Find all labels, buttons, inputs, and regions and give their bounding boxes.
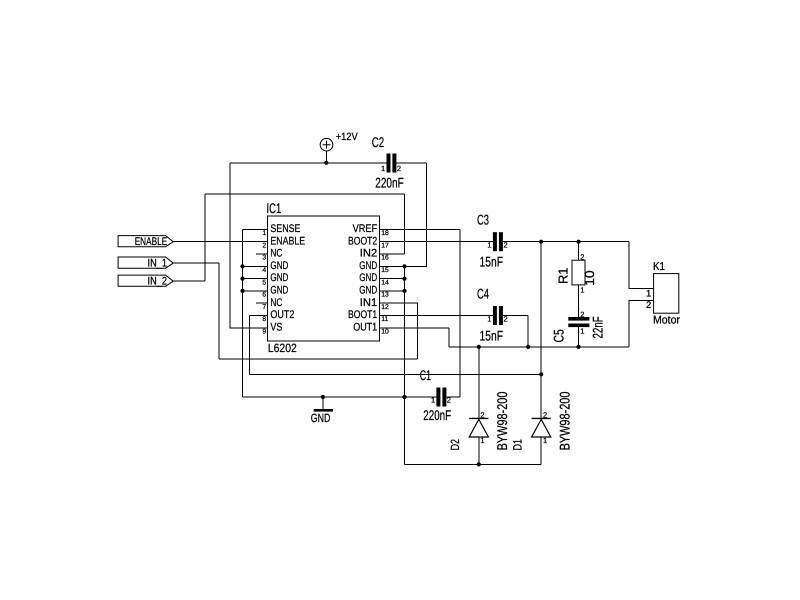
svg-text:C2: C2 bbox=[372, 134, 385, 150]
pin 12 IN1 stub bbox=[379, 302, 404, 304]
svg-text:ENABLE: ENABLE bbox=[135, 236, 168, 248]
svg-text:ENABLE: ENABLE bbox=[270, 235, 305, 247]
wire D1 cathode riser bbox=[540, 242, 542, 419]
svg-text:GND: GND bbox=[359, 272, 377, 284]
wire C2 leg down to GND pin 15 bbox=[405, 163, 427, 266]
svg-text:10: 10 bbox=[381, 329, 389, 336]
wire +12V rail to C2 bbox=[230, 162, 386, 164]
svg-text:2: 2 bbox=[262, 242, 266, 249]
pin 14 GND stub bbox=[379, 278, 404, 280]
svg-text:Motor: Motor bbox=[653, 314, 680, 326]
pin 6 GND stub bbox=[243, 290, 268, 292]
svg-text:C4: C4 bbox=[477, 285, 489, 301]
pin 8 OUT2 stub bbox=[249, 315, 267, 317]
svg-text:11: 11 bbox=[381, 316, 388, 323]
svg-text:OUT1: OUT1 bbox=[353, 321, 377, 333]
svg-text:2: 2 bbox=[504, 314, 508, 323]
wire OUT1 rail up to K1 pin 2 bbox=[629, 300, 654, 347]
wire IN_1 bottom run bbox=[219, 358, 417, 360]
wire IN_1 riser down bbox=[218, 263, 220, 359]
svg-text:K1: K1 bbox=[653, 261, 665, 273]
pin 18 VREF stub bbox=[379, 228, 404, 230]
svg-text:14: 14 bbox=[381, 279, 389, 286]
svg-text:8: 8 bbox=[262, 316, 266, 323]
connector ENABLE tag bbox=[118, 236, 173, 247]
svg-text:1: 1 bbox=[381, 164, 385, 173]
svg-text:D1: D1 bbox=[510, 439, 524, 451]
connector IN_2 tag bbox=[118, 275, 173, 286]
svg-text:10: 10 bbox=[582, 270, 597, 286]
svg-text:2: 2 bbox=[646, 300, 651, 311]
svg-text:BYW98-200: BYW98-200 bbox=[494, 391, 510, 450]
svg-text:1: 1 bbox=[487, 314, 491, 323]
capacitor C5 plates bbox=[568, 317, 589, 327]
wire OUT2 bottom run to D1 riser bbox=[249, 373, 541, 375]
junction dot R1 top bbox=[576, 240, 580, 244]
svg-text:15: 15 bbox=[381, 267, 389, 274]
svg-text:GND: GND bbox=[270, 272, 288, 284]
junction dot pin 15 GND bbox=[402, 264, 406, 268]
wire IN_2 to riser bbox=[173, 280, 205, 282]
svg-text:13: 13 bbox=[381, 292, 389, 299]
wire C1 right plate to riser bbox=[446, 396, 460, 398]
svg-text:1: 1 bbox=[646, 288, 651, 299]
pin 1 SENSE stub bbox=[243, 228, 268, 230]
pin 5 GND stub bbox=[243, 278, 268, 280]
wire IN_2 top run bbox=[205, 193, 405, 195]
junction dot pin 14 GND bbox=[402, 277, 406, 281]
wire GND right strap pins 15-13 bbox=[404, 266, 406, 397]
wire C4 drop to OUT1 rail bbox=[527, 316, 529, 347]
wire D1 anode bbox=[540, 437, 542, 464]
op-amp IC1 body bbox=[267, 216, 379, 341]
svg-text:IC1: IC1 bbox=[267, 200, 282, 216]
diode D1 cathode bar bbox=[532, 417, 551, 419]
wire ENABLE to pin 2 bbox=[173, 241, 242, 243]
wire OUT2 net C3 right run bbox=[503, 241, 629, 243]
svg-text:L6202: L6202 bbox=[268, 341, 297, 355]
junction dot pin 4 GND bbox=[240, 264, 244, 268]
wire +12V left leg down to VS bbox=[230, 163, 242, 328]
svg-text:GND: GND bbox=[359, 285, 377, 297]
wire C5 bottom to OUT1 rail bbox=[578, 327, 580, 347]
pin 4 GND stub bbox=[243, 265, 268, 267]
svg-text:1: 1 bbox=[543, 436, 547, 445]
power +12V symbol bbox=[320, 138, 333, 151]
svg-text:4: 4 bbox=[262, 267, 266, 274]
wire VREF down to C1 right bbox=[459, 229, 461, 397]
resistor R1 body bbox=[572, 260, 585, 285]
svg-text:5: 5 bbox=[262, 279, 266, 286]
svg-text:2: 2 bbox=[397, 164, 401, 173]
svg-text:GND: GND bbox=[359, 260, 377, 272]
wire IN_2 riser up bbox=[204, 194, 206, 281]
wire OUT2 net down to K1 pin 1 bbox=[629, 242, 654, 289]
pin 11 BOOT1 stub bbox=[379, 315, 404, 317]
svg-text:GND: GND bbox=[311, 411, 331, 425]
pin 9 VS stub bbox=[243, 327, 268, 329]
svg-text:2: 2 bbox=[480, 410, 484, 419]
wire GND horizontal run bbox=[243, 396, 437, 398]
wire GND branch down to diode rail bbox=[404, 397, 406, 464]
wire GND symbol stem bbox=[322, 397, 324, 409]
junction dot pin 5 GND bbox=[240, 277, 244, 281]
pin 13 GND stub bbox=[379, 290, 404, 292]
wire OUT1 step down bbox=[448, 328, 450, 347]
pin 17 BOOT2 stub bbox=[379, 241, 404, 243]
pin 16 IN2 stub bbox=[379, 253, 404, 255]
svg-text:VREF: VREF bbox=[353, 223, 378, 235]
svg-text:BOOT1: BOOT1 bbox=[348, 309, 377, 321]
svg-text:IN_1: IN_1 bbox=[148, 257, 168, 269]
capacitor C2 plates bbox=[387, 154, 397, 173]
svg-text:1: 1 bbox=[262, 230, 266, 237]
wire BOOT2 to C3 left bbox=[405, 241, 493, 243]
svg-text:R1: R1 bbox=[555, 268, 570, 285]
svg-text:GND: GND bbox=[270, 260, 288, 272]
pin 7 NC stub bbox=[256, 302, 267, 304]
svg-text:18: 18 bbox=[381, 230, 389, 237]
junction dot D1 riser at OUT2 top run bbox=[539, 240, 543, 244]
svg-text:3: 3 bbox=[262, 255, 266, 262]
connector K1 body bbox=[654, 274, 679, 314]
svg-text:IN_2: IN_2 bbox=[148, 275, 168, 287]
wire OUT2 from pin 8 down bbox=[248, 316, 250, 375]
wire +12V stem bbox=[325, 151, 327, 163]
wire D2 cathode riser bbox=[478, 347, 480, 419]
svg-text:1: 1 bbox=[431, 396, 435, 405]
capacitor C1 plates bbox=[436, 388, 446, 407]
svg-text:2: 2 bbox=[580, 252, 584, 261]
wire VREF to corner bbox=[379, 228, 460, 230]
svg-text:C5: C5 bbox=[551, 329, 567, 342]
svg-text:SENSE: SENSE bbox=[270, 223, 300, 235]
wire C4 right to drop bbox=[503, 315, 528, 317]
junction dot GND symbol bbox=[321, 395, 325, 399]
svg-text:2: 2 bbox=[580, 310, 584, 319]
svg-text:1: 1 bbox=[487, 241, 491, 250]
junction dot D2 cathode at OUT1 rail bbox=[477, 345, 481, 349]
svg-text:BYW98-200: BYW98-200 bbox=[556, 391, 572, 450]
ground symbol bbox=[314, 409, 333, 412]
svg-text:1: 1 bbox=[580, 327, 584, 336]
svg-text:D2: D2 bbox=[448, 439, 462, 451]
junction dot C4 drop at OUT1 rail bbox=[526, 345, 530, 349]
svg-text:C1: C1 bbox=[420, 367, 431, 383]
svg-text:C3: C3 bbox=[477, 212, 489, 228]
svg-text:1: 1 bbox=[480, 436, 484, 445]
wire IN_2 down to pin 16 bbox=[404, 194, 406, 254]
svg-text:BOOT2: BOOT2 bbox=[348, 235, 377, 247]
connector IN_1 tag bbox=[118, 257, 173, 268]
pin 2 ENABLE stub bbox=[243, 241, 268, 243]
svg-text:22nF: 22nF bbox=[590, 316, 606, 338]
junction dot +12V stem bbox=[324, 161, 328, 165]
svg-text:2: 2 bbox=[504, 241, 508, 250]
svg-text:IN2: IN2 bbox=[360, 248, 377, 260]
junction dot pin 6 GND bbox=[240, 289, 244, 293]
svg-text:7: 7 bbox=[262, 304, 266, 311]
diode D1 triangle bbox=[532, 419, 551, 437]
svg-text:15nF: 15nF bbox=[480, 254, 504, 270]
svg-text:16: 16 bbox=[381, 255, 389, 262]
wire OUT1 rail bbox=[449, 346, 629, 348]
svg-text:IN1: IN1 bbox=[360, 297, 377, 309]
svg-text:220nF: 220nF bbox=[423, 407, 451, 423]
diode D2 triangle bbox=[469, 419, 488, 437]
junction dot GND diode branch bbox=[402, 395, 406, 399]
capacitor C4 plates bbox=[493, 306, 503, 325]
wire SENSE/GND left strap bbox=[242, 229, 244, 397]
junction dot OUT2 bottom run at D1 riser bbox=[539, 372, 543, 376]
pin 10 OUT1 stub bbox=[379, 327, 404, 329]
wire R1 bottom to C5 bbox=[578, 285, 580, 317]
junction dot D2 anode rail bbox=[477, 462, 481, 466]
svg-text:6: 6 bbox=[262, 292, 266, 299]
svg-text:15nF: 15nF bbox=[480, 327, 504, 343]
wire IN_1 up to pin 12 bbox=[405, 303, 418, 359]
svg-text:GND: GND bbox=[270, 285, 288, 297]
wire D2 anode bbox=[478, 437, 480, 464]
svg-text:17: 17 bbox=[381, 242, 389, 249]
wire OUT1 from pin 10 bbox=[405, 327, 449, 329]
pin 15 GND stub bbox=[379, 265, 404, 267]
capacitor C3 plates bbox=[493, 232, 503, 251]
svg-text:220nF: 220nF bbox=[375, 175, 403, 191]
svg-text:+12V: +12V bbox=[336, 131, 358, 143]
svg-text:2: 2 bbox=[543, 410, 547, 419]
svg-text:NC: NC bbox=[270, 248, 282, 260]
wire R1 top stem bbox=[578, 242, 580, 261]
junction dot pin 13 GND bbox=[402, 289, 406, 293]
diode D2 cathode bar bbox=[469, 417, 488, 419]
svg-text:NC: NC bbox=[270, 297, 282, 309]
wire diode anode rail bbox=[405, 463, 542, 465]
pin 3 NC stub bbox=[256, 253, 267, 255]
svg-text:12: 12 bbox=[381, 304, 389, 311]
wire IN_1 to riser bbox=[173, 262, 219, 264]
svg-text:2: 2 bbox=[447, 396, 451, 405]
junction dot C5 at OUT1 rail bbox=[576, 345, 580, 349]
svg-text:VS: VS bbox=[270, 321, 282, 333]
wire C2 right to corner bbox=[396, 162, 426, 164]
svg-text:OUT2: OUT2 bbox=[270, 309, 294, 321]
wire BOOT1 to C4 left bbox=[405, 315, 493, 317]
svg-text:1: 1 bbox=[580, 285, 584, 294]
svg-text:9: 9 bbox=[262, 329, 266, 336]
